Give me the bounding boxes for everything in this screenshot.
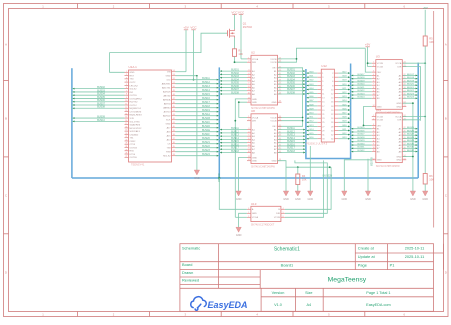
svg-text:10: 10	[248, 93, 250, 95]
svg-text:BUS27: BUS27	[358, 134, 366, 136]
svg-text:BUS23: BUS23	[202, 149, 210, 152]
wire U1A right BUS14	[176, 91, 220, 93]
svg-text:VCCA: VCCA	[395, 115, 402, 118]
wire U5 B2	[351, 131, 372, 133]
svg-text:OE#: OE#	[272, 126, 277, 128]
wire U1A right BUS1B	[176, 119, 220, 121]
svg-text:40: 40	[173, 126, 175, 128]
resistor R4 10K	[296, 174, 300, 185]
svg-text:10: 10	[373, 147, 375, 149]
wire U5 B1	[351, 128, 372, 130]
wire U12 pin31	[306, 134, 317, 136]
svg-text:BUS1E: BUS1E	[202, 129, 210, 132]
wire U13 VCCA	[235, 216, 247, 218]
wire U5 B6	[351, 144, 372, 146]
svg-text:10K: 10K	[429, 40, 434, 44]
svg-text:BUS19: BUS19	[407, 80, 415, 82]
svg-text:8: 8	[373, 87, 374, 89]
svg-text:U1A.1: U1A.1	[129, 65, 138, 69]
svg-text:5: 5	[373, 77, 374, 79]
svg-text:BUS1B: BUS1B	[202, 117, 210, 120]
wire U12 pin28	[338, 125, 350, 127]
svg-text:GND: GND	[252, 102, 257, 104]
svg-text:GND: GND	[166, 76, 171, 78]
svg-text:3: 3	[248, 208, 249, 210]
svg-text:11: 11	[373, 97, 375, 99]
svg-text:35: 35	[173, 146, 175, 148]
svg-text:45: 45	[173, 106, 175, 108]
svg-text:9: 9	[248, 89, 249, 91]
wire U5 VCCA to +5V rail	[403, 116, 425, 118]
wire U2 A8	[219, 93, 247, 95]
wire U12 pin9	[306, 89, 317, 91]
svg-text:BUS24: BUS24	[358, 97, 366, 99]
wire U12 pin13	[306, 97, 317, 99]
svg-text:Schematic1: Schematic1	[274, 247, 300, 253]
wire U12 pin21	[306, 113, 317, 115]
svg-text:BUS31: BUS31	[358, 147, 366, 149]
wire U5 A2	[403, 131, 418, 133]
junction U4 VCCB 2	[302, 120, 304, 122]
svg-text:13: 13	[404, 105, 406, 107]
svg-text:BUS21: BUS21	[407, 87, 415, 89]
svg-text:48: 48	[173, 94, 175, 96]
svg-text:U13: U13	[251, 202, 257, 206]
wire U12 pin20	[338, 109, 350, 111]
bus right vertical	[417, 63, 419, 178]
wire U4 B4	[278, 138, 306, 140]
svg-text:BUS1C: BUS1C	[202, 121, 210, 124]
svg-text:BUS28: BUS28	[407, 137, 415, 139]
wire U5 GND dots	[403, 156, 413, 158]
svg-text:23: 23	[125, 143, 127, 145]
svg-text:6: 6	[283, 216, 284, 218]
svg-text:OE#: OE#	[377, 125, 382, 127]
svg-text:42: 42	[173, 118, 175, 120]
wire R4 to ground	[297, 185, 299, 192]
svg-text:3: 3	[248, 70, 249, 72]
junction U4 VCCB 1	[302, 117, 304, 119]
svg-text:BUS24: BUS24	[202, 153, 210, 156]
svg-text:BUS31: BUS31	[407, 147, 415, 149]
svg-text:RST: RST	[130, 75, 135, 77]
svg-text:MQSR/CS1: MQSR/CS1	[130, 108, 142, 110]
wire U1A right BUS11	[176, 79, 220, 81]
svg-text:MCLK2: MCLK2	[163, 156, 171, 158]
wire U3 GND left down to U5 OE#	[364, 107, 372, 126]
svg-text:6: 6	[248, 79, 249, 81]
ground U4 right	[285, 190, 287, 192]
svg-text:23: 23	[279, 119, 281, 121]
svg-text:BUS25: BUS25	[358, 127, 366, 129]
svg-text:8: 8	[373, 140, 374, 142]
junction U2 VCCB	[296, 58, 298, 60]
wire U5 B3	[351, 134, 372, 136]
wire +5V rail down	[424, 46, 426, 174]
wire U2 B7	[278, 90, 306, 92]
svg-text:46: 46	[173, 102, 175, 104]
svg-text:BUS18: BUS18	[202, 105, 210, 108]
wire U2 B8	[278, 93, 306, 95]
wire U2 B6	[278, 86, 306, 88]
wire U4 GND right to ground	[278, 161, 287, 191]
svg-text:SCK: SCK	[166, 120, 171, 122]
svg-text:BUS18: BUS18	[287, 150, 295, 153]
ic U2 SN74LVCH8T245PW	[247, 50, 282, 110]
svg-text:B: B	[5, 117, 7, 121]
svg-text:51: 51	[173, 82, 175, 84]
svg-text:VCC: VCC	[238, 10, 245, 14]
svg-text:BUS1F: BUS1F	[202, 133, 210, 136]
svg-text:VCCB: VCCB	[270, 62, 277, 64]
svg-text:1: 1	[248, 116, 249, 118]
wire U12 pin15	[306, 101, 317, 103]
wire U1A right BUS12	[176, 83, 220, 85]
svg-text:BUS22: BUS22	[202, 145, 210, 148]
junction U4 DIR	[234, 120, 236, 122]
svg-text:BUS13: BUS13	[202, 85, 210, 88]
svg-text:BUS18: BUS18	[358, 77, 366, 79]
wire U2 VCCB rail	[278, 58, 297, 60]
wire U1A right BUS1E	[176, 131, 220, 133]
svg-text:10: 10	[125, 100, 127, 102]
ic U13 SN74LVC1T45DCKT	[247, 202, 285, 227]
svg-text:2025-10-11: 2025-10-11	[405, 254, 425, 259]
svg-text:V1.0: V1.0	[274, 303, 282, 307]
svg-text:A4: A4	[306, 303, 311, 307]
svg-text:20: 20	[125, 133, 127, 135]
svg-text:VCCA: VCCA	[252, 58, 259, 61]
svg-text:2: 2	[126, 74, 127, 76]
svg-text:Size: Size	[305, 291, 312, 295]
wire U5 A3	[403, 134, 418, 136]
svg-text:BUS27: BUS27	[407, 134, 415, 136]
wire U12 pin25	[306, 121, 317, 123]
svg-text:BUS11: BUS11	[202, 77, 210, 80]
svg-text:16: 16	[125, 120, 127, 122]
svg-text:GND: GND	[194, 177, 200, 180]
svg-text:BUS23: BUS23	[407, 93, 415, 95]
svg-text:BUS28: BUS28	[358, 137, 366, 139]
wire U12 pin22	[338, 113, 350, 115]
wire U3 B2	[351, 78, 372, 80]
svg-text:36: 36	[173, 142, 175, 144]
svg-text:BUS22: BUS22	[358, 90, 366, 92]
ground U13	[238, 226, 240, 228]
wire U1A left BUS04	[72, 94, 125, 96]
svg-text:BUS24: BUS24	[407, 97, 415, 99]
svg-text:8: 8	[248, 144, 249, 146]
svg-text:OUT1A/RX2: OUT1A/RX2	[130, 97, 143, 100]
wire R4 top	[297, 167, 299, 174]
svg-text:41: 41	[173, 122, 175, 124]
wire U1A right BUS21	[176, 143, 220, 145]
bus lower horizontal	[72, 177, 418, 179]
svg-text:MCLK1/X12: MCLK1/X12	[130, 128, 143, 130]
wire U2 A7	[219, 90, 247, 92]
svg-text:BUS20: BUS20	[358, 84, 366, 86]
svg-text:13: 13	[279, 101, 281, 103]
svg-text:C: C	[5, 193, 7, 197]
wire U13 GND	[239, 213, 247, 227]
svg-text:ABCTX1: ABCTX1	[162, 87, 171, 90]
svg-text:SN74LVCH8T245PW: SN74LVCH8T245PW	[251, 166, 275, 169]
wire U4 GND left to ground	[239, 157, 247, 191]
svg-text:BUS17: BUS17	[202, 101, 210, 104]
svg-text:12: 12	[248, 159, 250, 161]
svg-text:GND: GND	[283, 198, 289, 201]
border column ticks bottom	[77, 312, 79, 317]
svg-text:BUS12: BUS12	[202, 81, 210, 84]
wire U12 pin32	[338, 134, 350, 136]
svg-text:U2: U2	[251, 50, 255, 54]
svg-text:BUS08: BUS08	[231, 91, 239, 94]
wire U3 A2	[403, 78, 418, 80]
svg-text:BUS1A: BUS1A	[202, 113, 210, 116]
svg-text:CS0/A12: CS0/A12	[130, 133, 140, 136]
wire U5 A6	[403, 144, 418, 146]
svg-text:3: 3	[248, 128, 249, 130]
wire U12 pin12	[338, 93, 350, 95]
svg-text:GND: GND	[252, 157, 257, 159]
svg-text:Page: Page	[358, 263, 367, 268]
svg-text:2025-10-11: 2025-10-11	[405, 245, 425, 250]
wire U2 GND2 to U4 VCCA	[239, 102, 247, 117]
bus junction dot	[218, 177, 220, 179]
svg-text:BUS21: BUS21	[358, 87, 366, 89]
wire U5 B5	[351, 141, 372, 143]
sheet boundary line right	[433, 11, 435, 228]
border row ticks left	[4, 80, 9, 82]
svg-text:7: 7	[248, 141, 249, 143]
svg-text:Q1: Q1	[243, 22, 247, 26]
svg-text:11: 11	[373, 150, 375, 152]
svg-text:EasyEDA.com: EasyEDA.com	[366, 303, 390, 307]
junction U3 GND	[412, 102, 414, 104]
svg-text:Schematic: Schematic	[182, 245, 200, 250]
wire U12 pin30	[338, 130, 350, 132]
wire U12 pin29	[306, 130, 317, 132]
svg-text:BUS26: BUS26	[407, 130, 415, 132]
wire U3 B5	[351, 87, 372, 89]
svg-text:43: 43	[173, 114, 175, 116]
svg-text:BUS22: BUS22	[407, 90, 415, 92]
wire U1A left BUS10	[72, 120, 125, 122]
svg-text:6: 6	[248, 138, 249, 140]
svg-text:10K: 10K	[302, 177, 307, 181]
wire U1A right BUS1F	[176, 135, 220, 137]
svg-text:GND: GND	[410, 198, 416, 201]
wire U3 B1	[351, 74, 372, 76]
svg-text:12: 12	[248, 101, 250, 103]
svg-text:VIN: VIN	[167, 72, 171, 74]
svg-text:R6: R6	[429, 174, 433, 178]
svg-text:12: 12	[373, 105, 375, 107]
svg-text:ABT34: ABT34	[164, 103, 171, 106]
ground U5 left	[343, 190, 345, 192]
svg-text:52: 52	[173, 78, 175, 80]
wire U4 A6	[219, 145, 247, 147]
wire U2 B4	[278, 80, 306, 82]
title block texts	[182, 245, 424, 306]
svg-text:8: 8	[126, 94, 127, 96]
svg-text:OE#: OE#	[272, 68, 277, 70]
svg-text:9: 9	[248, 148, 249, 150]
wire U12 pin14	[338, 97, 350, 99]
junction R1 DIR	[234, 61, 236, 63]
svg-text:4: 4	[373, 74, 374, 76]
wire U3 A5	[403, 87, 418, 89]
wire U5 GND left to ground	[344, 160, 372, 191]
svg-text:5: 5	[126, 84, 127, 86]
svg-text:BUS29: BUS29	[407, 140, 415, 142]
wire U1A right BUS19	[176, 111, 220, 113]
wire U2 A2	[219, 73, 247, 75]
wire U2 A3	[219, 77, 247, 79]
wire U5 B7	[351, 147, 372, 149]
ground U1A	[196, 168, 198, 171]
svg-text:VCCB: VCCB	[270, 117, 277, 119]
wire U1A GND down	[176, 76, 197, 168]
svg-text:BUS10: BUS10	[97, 119, 105, 122]
svg-text:Board: Board	[182, 262, 192, 267]
svg-text:+5V: +5V	[365, 43, 370, 47]
wire U5 OE# junction	[364, 124, 372, 126]
wire U12 pin6	[338, 80, 350, 82]
svg-text:5: 5	[373, 130, 374, 132]
svg-text:VCCB: VCCB	[377, 63, 384, 65]
svg-text:25: 25	[125, 149, 127, 151]
easyeda logo	[191, 297, 248, 311]
wire U4 A4	[219, 138, 247, 140]
svg-text:BUS17: BUS17	[358, 74, 366, 76]
svg-text:5: 5	[248, 135, 249, 137]
svg-text:4: 4	[248, 73, 249, 75]
svg-text:34: 34	[173, 150, 175, 152]
wire U12 down to ground	[309, 146, 311, 191]
wire U1A right BUS18	[176, 107, 220, 109]
svg-text:BUS1D: BUS1D	[202, 125, 210, 128]
svg-text:VCCA: VCCA	[252, 216, 259, 219]
wire U3 B3	[351, 81, 372, 83]
svg-text:GND: GND	[342, 198, 348, 201]
svg-text:2: 2	[373, 118, 374, 120]
svg-text:6: 6	[373, 134, 374, 136]
svg-text:OUT2: OUT2	[130, 82, 137, 84]
wire U3 OE# rail	[365, 48, 372, 72]
wire U12 pin16	[338, 101, 350, 103]
wire U2 A5	[219, 83, 247, 85]
wire U3 B8	[351, 97, 372, 99]
wire U5 B8	[351, 151, 372, 153]
wire U4 B8	[278, 152, 306, 154]
svg-text:Version: Version	[272, 291, 285, 295]
svg-text:U11: U11	[376, 108, 382, 112]
svg-text:SCK1/A13: SCK1/A13	[130, 130, 141, 133]
svg-text:8: 8	[248, 86, 249, 88]
svg-text:PS2000.2 UL.6.4.3: PS2000.2 UL.6.4.3	[306, 142, 328, 145]
wire U1A right BUS22	[176, 147, 220, 149]
svg-text:3: 3	[373, 71, 374, 73]
wire U12 pin10	[338, 89, 350, 91]
svg-text:U3: U3	[376, 55, 380, 59]
wire U2 GND1 down to U4 DIR and U13	[235, 99, 247, 217]
wire U12 pin4	[338, 76, 350, 78]
wire U3 A6	[403, 91, 418, 93]
svg-text:GND: GND	[166, 124, 171, 126]
resistor R1 10K	[233, 49, 237, 57]
wire U4 B7	[278, 148, 306, 150]
wire U1A left BUS09	[72, 117, 125, 119]
wire U5 B4	[351, 138, 372, 140]
svg-text:OUT1B: OUT1B	[130, 147, 138, 149]
junction U1A GND	[196, 75, 198, 77]
wire U2 B2	[278, 73, 306, 75]
svg-text:VCCB: VCCB	[377, 120, 384, 122]
svg-text:Page 1 Total 1: Page 1 Total 1	[366, 291, 390, 295]
svg-text:44: 44	[173, 110, 175, 112]
svg-text:26: 26	[125, 153, 127, 155]
svg-text:BUS32: BUS32	[358, 150, 366, 152]
svg-text:24: 24	[279, 116, 281, 118]
svg-text:ABT3D: ABT3D	[163, 95, 170, 98]
svg-text:VCCA: VCCA	[395, 62, 402, 65]
junction mesh B	[329, 166, 331, 168]
svg-text:EasyEDA: EasyEDA	[208, 300, 248, 310]
junction U3 VCCA rail	[424, 62, 426, 64]
wire U1A right BUS13	[176, 87, 220, 89]
svg-text:CTX1/MOSI: CTX1/MOSI	[130, 111, 142, 113]
svg-text:TEENSY41: TEENSY41	[131, 163, 145, 167]
svg-text:DIR: DIR	[252, 121, 256, 123]
wire U3 B7	[351, 94, 372, 96]
svg-text:VCCB: VCCB	[270, 121, 277, 123]
svg-text:BUS18: BUS18	[231, 150, 239, 153]
svg-text:11: 11	[248, 97, 250, 99]
svg-text:2: 2	[248, 119, 249, 121]
svg-text:33: 33	[173, 154, 175, 156]
wire U1A right BUS16	[176, 99, 220, 101]
wire U12 pin2	[338, 72, 350, 74]
wire U12 pin33	[306, 138, 317, 140]
svg-text:MegaTeensy: MegaTeensy	[328, 276, 367, 283]
svg-text:SDA2/RX6: SDA2/RX6	[130, 124, 141, 127]
svg-text:9: 9	[373, 144, 374, 146]
svg-text:BUS18: BUS18	[407, 77, 415, 79]
wire U1A right BUS1C	[176, 123, 220, 125]
svg-text:MQSL/MISO: MQSL/MISO	[130, 115, 143, 117]
svg-text:BUS25: BUS25	[407, 127, 415, 129]
svg-text:12: 12	[125, 107, 127, 109]
svg-text:CRX2: CRX2	[130, 141, 137, 143]
svg-text:BUS08: BUS08	[287, 91, 295, 94]
svg-text:DIR: DIR	[252, 62, 256, 64]
svg-text:17: 17	[125, 123, 127, 125]
connector U12 PS2000.2	[306, 64, 338, 145]
svg-text:GND: GND	[377, 160, 382, 162]
svg-text:P1: P1	[390, 263, 395, 268]
bus U1A right vertical	[218, 67, 220, 178]
svg-text:24: 24	[125, 146, 127, 148]
svg-text:6: 6	[126, 87, 127, 89]
svg-text:U12: U12	[321, 64, 327, 68]
svg-text:3.3V: 3.3V	[130, 118, 135, 120]
svg-text:1: 1	[248, 212, 249, 214]
wire U12 pin8	[338, 84, 350, 86]
svg-text:LRCLK2: LRCLK2	[130, 85, 139, 87]
svg-text:GND: GND	[308, 198, 314, 201]
svg-text:10K: 10K	[238, 52, 243, 56]
